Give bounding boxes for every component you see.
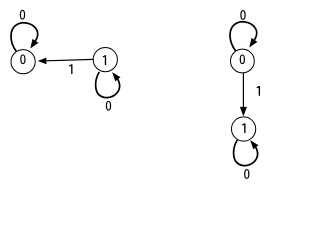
label 0 of L0 self-loop (20, 10, 25, 20)
state R1 circle (232, 117, 256, 141)
label 1 of edge R0 to R1 (257, 86, 260, 96)
arrowhead of R0 self-loop (249, 38, 257, 48)
state R0 label 0 (240, 54, 245, 64)
label 1 of edge L1 to L0 (69, 64, 72, 74)
self-loop on L1 (96, 72, 120, 98)
arrowhead of R1 self-loop (250, 140, 258, 149)
state L0 circle (11, 50, 35, 74)
label 0 of R1 self-loop (244, 169, 249, 179)
arrowhead of L1 self-loop (112, 72, 120, 81)
self-loop on L0 (11, 23, 38, 52)
label 0 of L1 self-loop (106, 101, 111, 111)
label 0 of R0 self-loop (240, 10, 245, 20)
transition edge R0 to R1 (242, 73, 244, 108)
arrowhead of L0 self-loop (30, 39, 38, 49)
state R0 circle (231, 49, 255, 73)
state L0 label 0 (20, 54, 25, 64)
arrowhead of edge R0 to R1 (240, 107, 247, 117)
state L1 label 1 (103, 55, 106, 65)
transition edge L1 to L0 (47, 59, 94, 60)
state L1 circle (93, 48, 117, 72)
state R1 label 1 (242, 123, 245, 133)
arrowhead of edge L1 to L0 (38, 58, 47, 65)
self-loop on R0 (230, 22, 257, 51)
self-loop on R1 (234, 140, 258, 166)
